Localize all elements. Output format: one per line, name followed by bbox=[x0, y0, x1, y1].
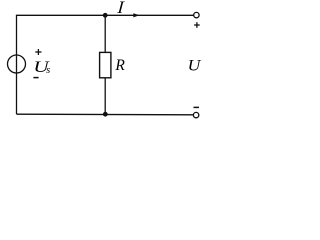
junction bottom node bbox=[103, 112, 108, 117]
polarity - of output bbox=[194, 106, 200, 108]
svg-text:U: U bbox=[188, 56, 203, 74]
terminal - (bottom right) bbox=[193, 112, 198, 117]
top wire bbox=[17, 14, 194, 16]
svg-text:I: I bbox=[116, 0, 126, 17]
terminal + (top right) bbox=[194, 12, 199, 17]
polarity + of source bbox=[35, 49, 41, 55]
voltage source U_s bbox=[8, 55, 26, 73]
polarity - of source bbox=[33, 77, 38, 79]
svg-text:s: s bbox=[46, 65, 50, 76]
resistor R bbox=[100, 52, 111, 77]
resistor branch wire bbox=[104, 15, 106, 114]
junction top node bbox=[103, 13, 108, 18]
svg-text:R: R bbox=[114, 57, 125, 74]
left wire bbox=[16, 15, 18, 115]
current arrow I bbox=[133, 13, 139, 17]
polarity + of output bbox=[194, 22, 200, 28]
bottom wire bbox=[17, 113, 194, 116]
